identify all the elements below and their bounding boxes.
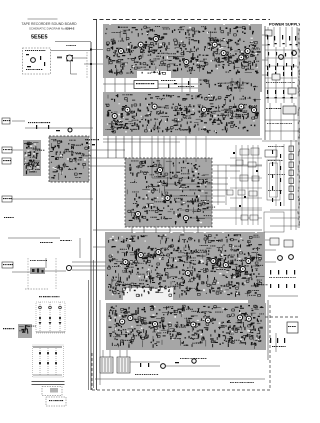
- svg-text:SCHEMATIC DIAGRAM No 8294-2: SCHEMATIC DIAGRAM No 8294-2: [29, 27, 75, 31]
- svg-text:5E5E5: 5E5E5: [31, 35, 48, 41]
- svg-text:TAPE RECORDER SOUND BOARD: TAPE RECORDER SOUND BOARD: [22, 22, 78, 26]
- svg-text:POWER SUPPLY: POWER SUPPLY: [269, 22, 300, 27]
